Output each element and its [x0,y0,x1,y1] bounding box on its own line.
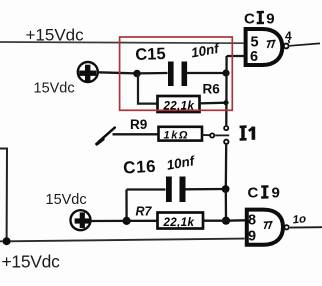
svg-text:C15: C15 [135,45,166,64]
svg-text:15Vdc: 15Vdc [46,192,87,208]
svg-text:R6: R6 [203,82,221,97]
svg-text:C16: C16 [123,157,157,178]
svg-text:9: 9 [248,229,256,245]
svg-text:15Vdc: 15Vdc [34,81,75,97]
svg-text:+15Vdc: +15Vdc [2,252,61,272]
svg-text:8: 8 [248,213,256,229]
svg-text:6: 6 [250,49,258,65]
svg-text:C: C [248,185,259,202]
svg-text:R7: R7 [136,205,153,219]
svg-text:1kΩ: 1kΩ [164,129,190,141]
svg-text:R9: R9 [130,117,147,132]
svg-text:C: C [244,10,255,27]
svg-text:1o: 1o [292,213,307,226]
svg-text:9: 9 [266,10,274,27]
svg-text:22,1k: 22,1k [163,100,195,112]
svg-text:+15Vdc: +15Vdc [26,26,85,45]
svg-text:22,1k: 22,1k [163,217,195,229]
svg-text:9: 9 [272,185,280,202]
